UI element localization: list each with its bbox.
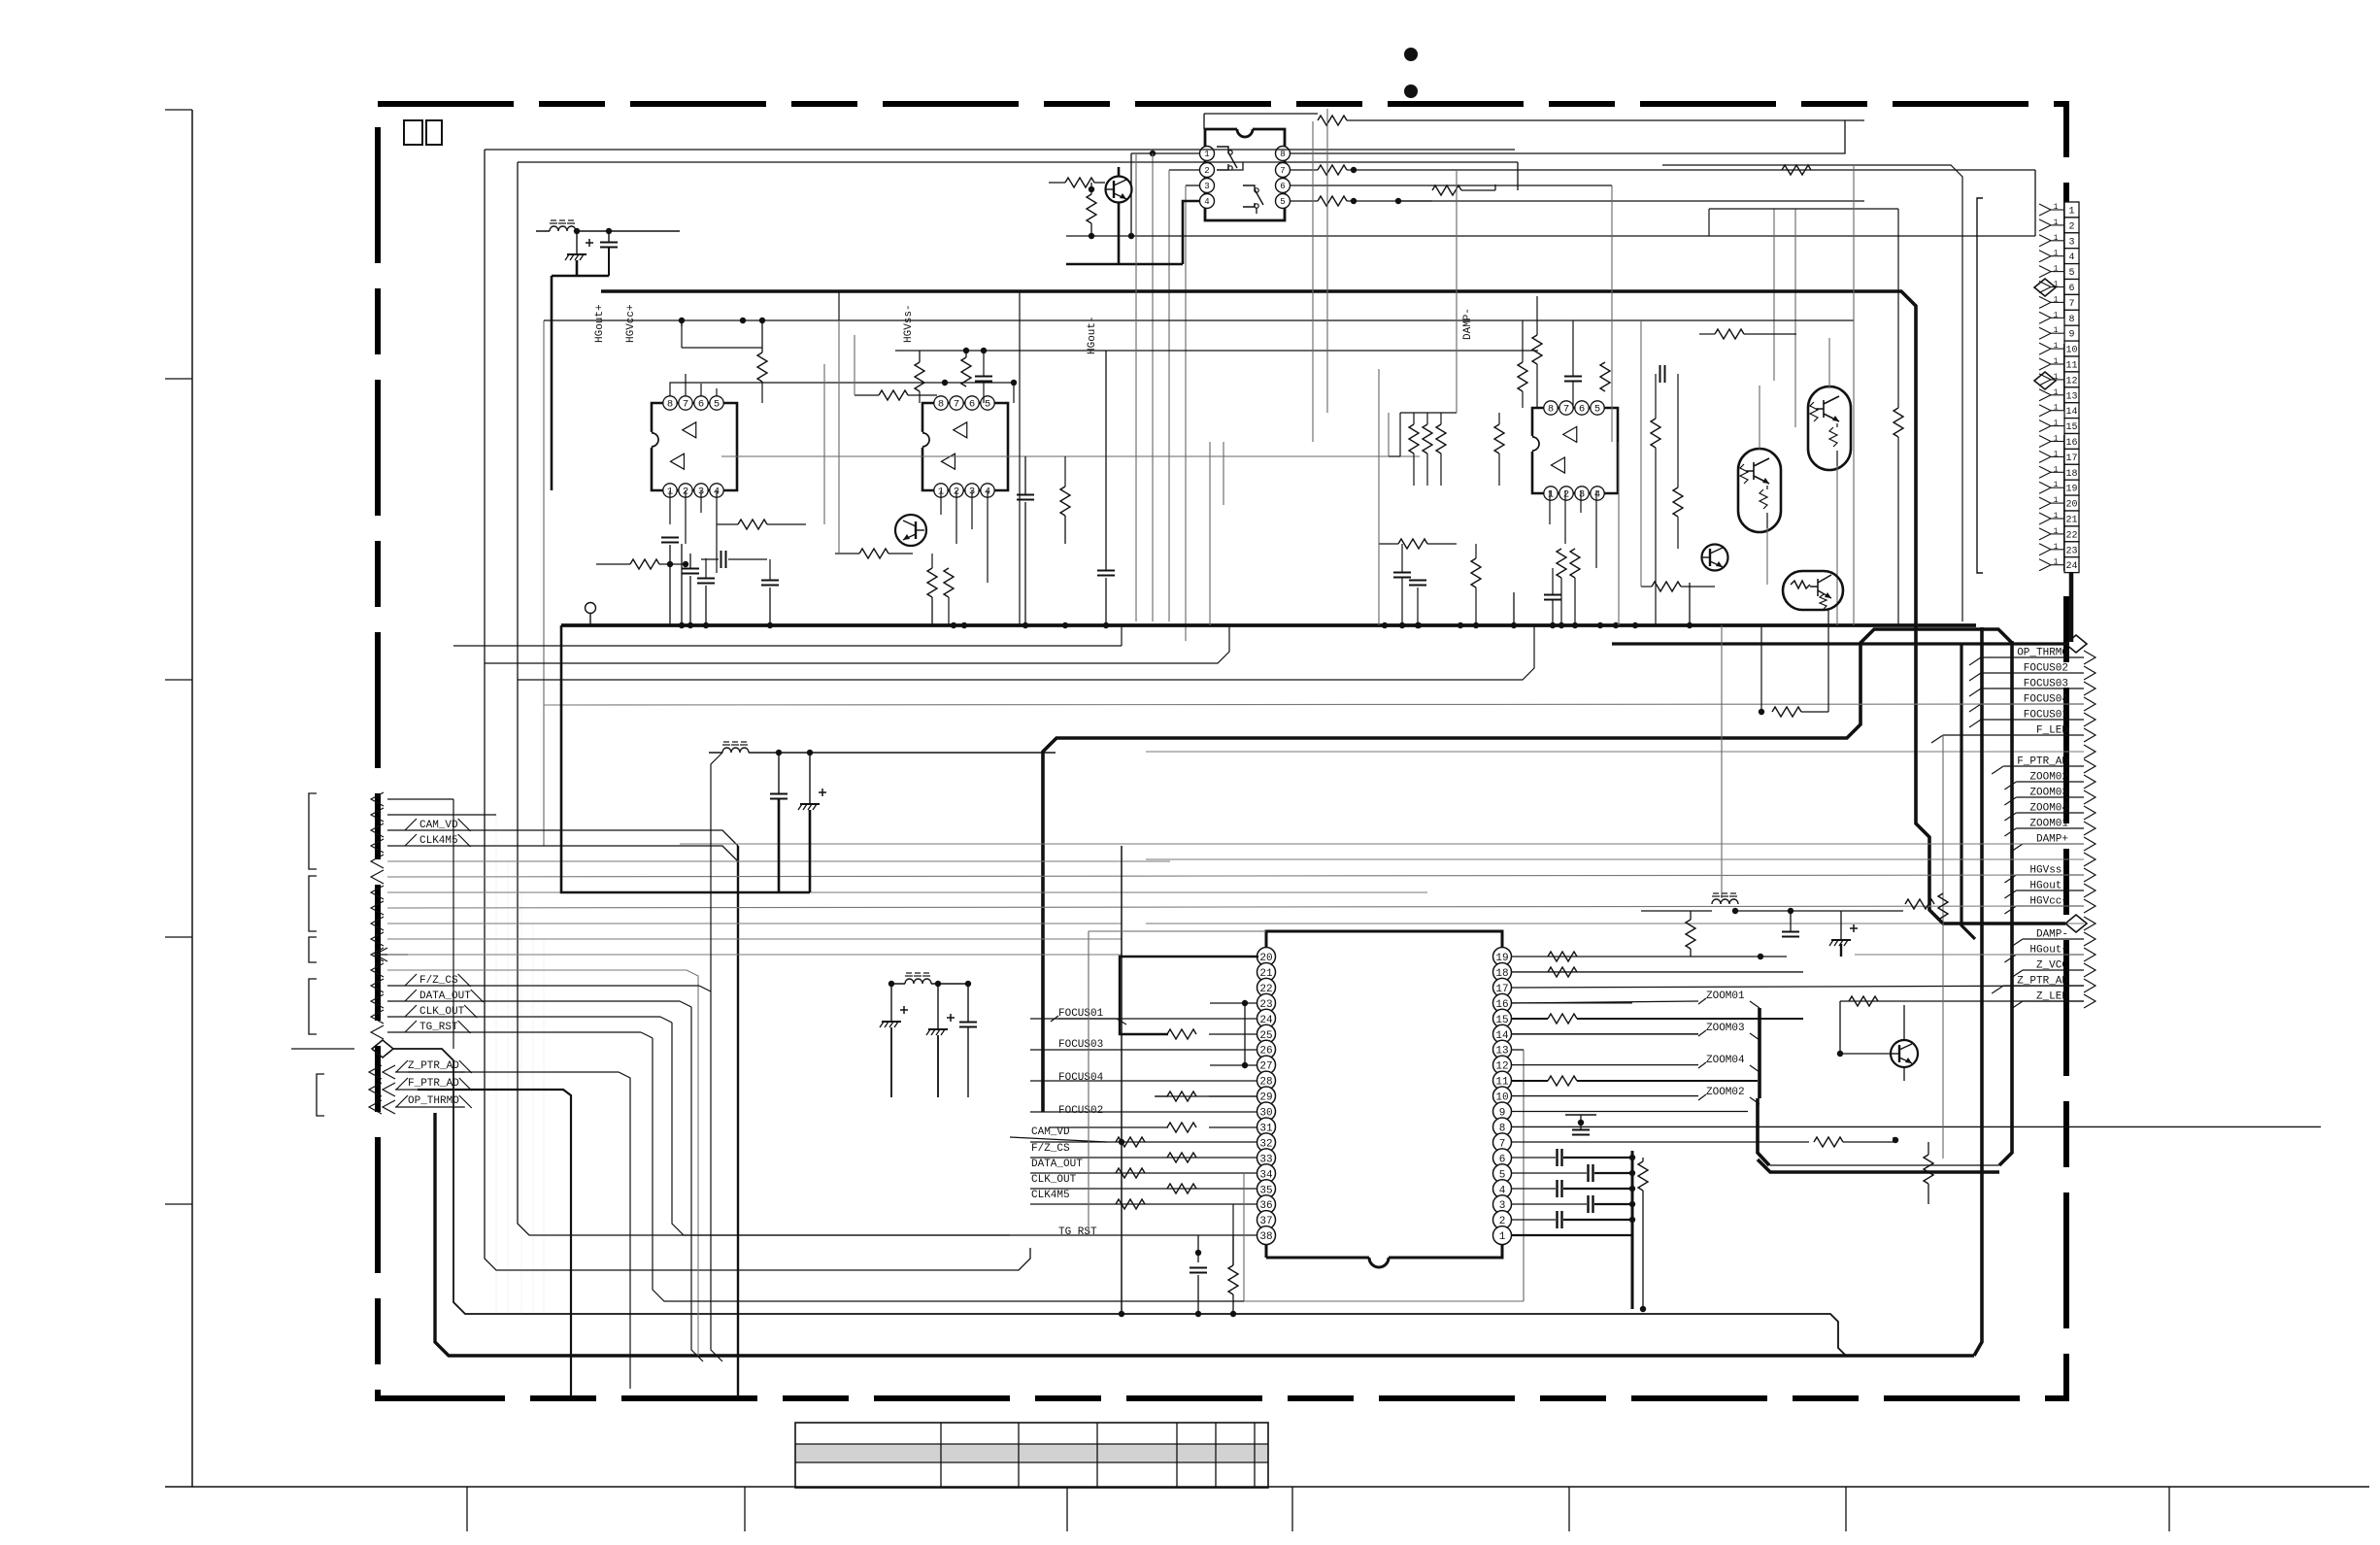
resistor R21 <box>1060 487 1070 516</box>
IC7 pin 14 wire <box>1512 1033 1698 1035</box>
nest wire 4 <box>653 1038 1244 1301</box>
resistor R31 <box>1600 362 1610 391</box>
resistor R29 <box>1518 362 1527 391</box>
IC7 pin 22 <box>1257 978 1276 996</box>
svg-text:1: 1 <box>2068 207 2074 218</box>
IC1 pin bottom wires <box>670 490 717 573</box>
svg-text:1: 1 <box>1499 1231 1506 1243</box>
transistor Q1 <box>1106 177 1132 203</box>
digital transistor capsule Q6 <box>1738 449 1781 532</box>
resistor R23 <box>927 568 937 597</box>
svg-text:DATA_OUT: DATA_OUT <box>1031 1159 1083 1170</box>
svg-text:TG_RST: TG_RST <box>419 1022 458 1033</box>
route from left diamond <box>393 1049 1846 1356</box>
wire pin6 right <box>1290 185 1612 186</box>
IC7 pin 32 <box>1257 1133 1276 1152</box>
svg-text:DAMP-: DAMP- <box>1462 308 1474 340</box>
svg-text:CAM_VD: CAM_VD <box>1031 1126 1070 1138</box>
left group brackets <box>309 793 317 869</box>
svg-text:Z_PTR_AD: Z_PTR_AD <box>408 1060 459 1072</box>
left chevron row nc <box>371 932 384 946</box>
resistor under IC7 <box>1228 1265 1238 1294</box>
svg-text:TG_RST: TG_RST <box>1058 1226 1097 1238</box>
capacitor C12 <box>1544 594 1561 596</box>
thick collector bus <box>1631 1151 1634 1309</box>
svg-text:1: 1 <box>2054 404 2059 413</box>
HGout+ long net right <box>1855 954 2084 956</box>
switch pin 7 <box>1276 163 1291 178</box>
svg-text:HGout-: HGout- <box>1087 316 1098 354</box>
cap right of IC3 resistors <box>1659 365 1661 383</box>
resistor R7 <box>1167 1153 1196 1162</box>
IC7 pin 8 wire <box>1512 1125 2321 1127</box>
svg-text:1: 1 <box>2054 481 2059 489</box>
IC7 pin 20 <box>1257 948 1276 966</box>
terminal circle on gnd bus <box>586 603 596 614</box>
svg-text:1: 1 <box>2054 558 2059 567</box>
CAM_VD CLK4M5 into trunk <box>387 830 738 861</box>
IC7 pin 25 <box>1257 1024 1276 1043</box>
svg-text:F/Z_CS: F/Z_CS <box>419 975 458 987</box>
IC7 pin 10 <box>1493 1087 1512 1105</box>
IC7 pin 24 <box>1257 1009 1276 1027</box>
IC7 pin 11 <box>1493 1071 1512 1090</box>
svg-text:CAM_VD: CAM_VD <box>419 820 458 831</box>
transistor right low <box>1702 545 1728 571</box>
resistor R14 <box>1548 952 1577 961</box>
resistor R34 <box>1471 558 1481 588</box>
capacitor C11 <box>1409 580 1426 582</box>
capacitor <box>1782 931 1799 933</box>
bus HGout+ top (thick) <box>601 291 2065 924</box>
resistor R12 <box>1167 1092 1196 1101</box>
svg-text:5: 5 <box>2068 268 2074 279</box>
capacitor C8 <box>1017 494 1034 496</box>
resistor R25 <box>1409 424 1419 453</box>
inductor L1 <box>550 226 576 231</box>
resistor right mid B <box>1673 487 1683 517</box>
diamond at connector pin 6 <box>2034 279 2056 296</box>
svg-text:1: 1 <box>2054 218 2059 227</box>
resistor R22 <box>859 549 888 558</box>
left chevron row CLK_OUT <box>371 1010 384 1024</box>
resistor R27 <box>1436 424 1446 453</box>
IC7 pin 18 <box>1493 962 1512 981</box>
HGVcc+ long net <box>387 906 2084 908</box>
resistor R8 <box>1116 1168 1145 1178</box>
svg-text:1: 1 <box>2054 388 2059 397</box>
IC7 pin 16 wire <box>1512 1002 1632 1004</box>
resistor R13 <box>1167 1123 1196 1132</box>
capacitor C7 <box>975 376 992 378</box>
svg-text:17: 17 <box>2065 453 2077 464</box>
svg-text:4: 4 <box>1204 197 1209 207</box>
svg-text:1: 1 <box>2054 342 2059 351</box>
svg-text:1: 1 <box>2054 326 2059 335</box>
svg-text:ZOOM03: ZOOM03 <box>1706 1023 1745 1034</box>
svg-text:1: 1 <box>2054 295 2059 304</box>
resistor R19 <box>1924 1155 1933 1184</box>
svg-text:7: 7 <box>1280 166 1285 176</box>
svg-text:7: 7 <box>954 399 959 411</box>
wire pin4 thick L <box>1066 201 1200 264</box>
IC7 pin 9 wire <box>1512 1111 1748 1113</box>
svg-text:7: 7 <box>683 399 688 411</box>
svg-text:5: 5 <box>714 399 720 411</box>
IC7 pin 13 <box>1493 1040 1512 1058</box>
svg-text:1: 1 <box>2054 265 2059 274</box>
svg-text:ZOOM01: ZOOM01 <box>1706 991 1745 1002</box>
svg-text:6: 6 <box>2068 284 2074 294</box>
svg-text:CLK4M5: CLK4M5 <box>1031 1190 1070 1201</box>
wire to capsule Q6 <box>1794 209 1796 427</box>
IC7 pin 14 <box>1493 1024 1512 1043</box>
IC7 pin 35 <box>1257 1180 1276 1198</box>
svg-text:6: 6 <box>969 399 975 411</box>
capacitor ladder <box>1556 1180 1558 1197</box>
svg-text:1: 1 <box>2054 527 2059 536</box>
left net label OP_THRMO <box>369 1100 395 1114</box>
diamond node right top <box>2065 635 2087 653</box>
nested loop wire A <box>485 150 1515 1270</box>
resistor R24 <box>944 568 954 597</box>
left chevron row nc <box>371 901 384 915</box>
long gray 726 <box>544 704 2084 705</box>
IC7 pin 2 <box>1493 1211 1512 1229</box>
resistor R9 <box>1167 1184 1196 1193</box>
digital transistor capsule Q8 <box>1783 571 1843 610</box>
capacitor below IC1 <box>661 537 679 539</box>
capacitor C mid <box>770 793 788 795</box>
svg-text:1: 1 <box>2054 357 2059 366</box>
resistor R2 <box>1318 165 1347 175</box>
svg-text:6: 6 <box>698 399 704 411</box>
IC7 pin 18 wire <box>1512 971 1803 973</box>
IC7 pin 19 <box>1493 948 1512 966</box>
pin20 thick route <box>1120 957 1258 1034</box>
resistor R18 <box>1814 1137 1843 1147</box>
svg-text:1: 1 <box>2054 250 2059 258</box>
svg-text:16: 16 <box>2065 438 2077 449</box>
IC7 pin 17 <box>1493 978 1512 996</box>
op-amp IC3 <box>1532 408 1618 493</box>
op-amp IC1 <box>652 403 737 490</box>
resistor R17 <box>1548 1076 1577 1086</box>
IC7 pin 7 <box>1493 1133 1512 1152</box>
capacitor ladder <box>1556 1211 1558 1228</box>
thick gnd link mid <box>561 625 779 892</box>
left chevron row DATA_OUT <box>371 994 384 1008</box>
bottom caps under IC7 <box>1195 1250 1201 1256</box>
resistor jog right <box>1772 707 1801 717</box>
left chevron row nc <box>371 855 384 868</box>
alignment dot upper <box>1404 48 1418 61</box>
title table <box>795 1444 1268 1462</box>
resistor R16 <box>1548 1014 1577 1024</box>
transistor Q2 <box>1891 1040 1918 1067</box>
svg-text:18: 18 <box>2065 469 2077 480</box>
wire pin8 <box>1290 120 1864 153</box>
nest wire TG_RST <box>672 1023 1006 1235</box>
resistor below Q1 <box>1087 194 1096 223</box>
IC7 pin 36 <box>1257 1195 1276 1214</box>
dashed sheet border <box>378 104 2066 1398</box>
transistor below IC2 <box>895 515 926 546</box>
diamond node right mid <box>2065 915 2087 932</box>
right spare chevron <box>2084 853 2095 866</box>
gray loop under IC7 <box>1244 1300 1524 1302</box>
switch IC S1 body <box>1205 129 1285 220</box>
left net label F_PTR_AD <box>369 1083 395 1096</box>
HGout+ long net left <box>387 954 1122 956</box>
resistor low left IC1 <box>630 559 659 569</box>
electrolytic capacitor C1 <box>567 253 587 255</box>
electrolytic cap mid <box>800 803 820 805</box>
svg-text:23: 23 <box>2065 546 2077 556</box>
nest wire 1 <box>711 753 722 1361</box>
wire h330 <box>1066 319 1854 321</box>
pin17 long wire to Z_PTR_AD <box>1512 986 2084 988</box>
left chevron row nc <box>371 948 384 961</box>
resistor far right <box>1894 408 1903 437</box>
Z_LED wire <box>1840 1001 2084 1054</box>
op-amp IC2 <box>922 403 1008 490</box>
resistor R5 <box>1782 165 1811 175</box>
left trunk thick <box>737 846 739 1396</box>
svg-text:38: 38 <box>1259 1231 1272 1243</box>
svg-text:7: 7 <box>2068 299 2074 310</box>
IC2 pin bottom wires <box>941 490 988 583</box>
IC7 pin 5 <box>1493 1164 1512 1183</box>
svg-text:1: 1 <box>2054 311 2059 319</box>
connector CN901 24-pin <box>2064 202 2079 218</box>
resistor above IC1 <box>757 353 767 382</box>
resistor R15 <box>1548 967 1577 977</box>
electrolytic cap A <box>882 1021 901 1023</box>
resistor Z_LED <box>1849 996 1878 1006</box>
capacitor C4 <box>761 580 779 582</box>
resistor R20 <box>961 357 971 386</box>
svg-text:21: 21 <box>2065 516 2077 526</box>
sheet id squares <box>404 120 422 145</box>
wire pin5 right <box>1347 200 1864 202</box>
switch pin 2 <box>1200 163 1215 178</box>
svg-text:1: 1 <box>2054 420 2059 428</box>
thick route R1 FOCUS02 feed <box>1043 629 2012 1112</box>
capacitor C9 <box>1564 376 1582 378</box>
pin1 wire <box>1512 1234 1632 1236</box>
capacitor <box>959 1022 977 1024</box>
switch pin 6 <box>1276 179 1291 193</box>
diamond at connector pin 12 <box>2034 372 2056 389</box>
svg-text:F_PTR_AD: F_PTR_AD <box>408 1078 459 1090</box>
capacitor ladder <box>1556 1149 1558 1166</box>
svg-text:2: 2 <box>1204 166 1209 176</box>
svg-text:CLK_OUT: CLK_OUT <box>1031 1174 1077 1186</box>
svg-text:ZOOM02: ZOOM02 <box>1706 1087 1745 1098</box>
capacitor C2 <box>1190 1267 1207 1269</box>
mid band jog lines <box>453 625 1122 646</box>
svg-text:1: 1 <box>2054 465 2059 474</box>
resistor right of IC1 pins <box>738 520 767 529</box>
svg-text:1: 1 <box>2054 435 2059 444</box>
switch pin 1 <box>1200 147 1215 161</box>
left chevron row TG_RST <box>371 1025 384 1039</box>
left net label Z_PTR_AD <box>369 1065 395 1079</box>
switch pin 4 <box>1200 194 1215 209</box>
IC7 pin 15 <box>1493 1009 1512 1027</box>
svg-text:3: 3 <box>1579 489 1585 501</box>
wire h361 <box>895 350 1538 352</box>
IC7 pin 16 <box>1493 993 1512 1012</box>
switch element A <box>1217 147 1237 170</box>
svg-text:20: 20 <box>2065 500 2077 511</box>
capacitor C top-left <box>600 242 618 244</box>
svg-text:8: 8 <box>667 399 673 411</box>
gray risers from left rows <box>495 815 497 1317</box>
svg-text:5: 5 <box>1280 197 1285 207</box>
top bus y=243 <box>1066 235 2035 237</box>
IC7 pin 27 <box>1257 1056 1276 1074</box>
svg-text:OP_THRMO: OP_THRMO <box>408 1095 459 1107</box>
left chevron row nc <box>371 917 384 930</box>
IC7 pin 28 <box>1257 1071 1276 1090</box>
vert to connector p1 <box>2034 170 2036 236</box>
svg-text:5: 5 <box>1594 404 1600 416</box>
svg-text:HGVcc+: HGVcc+ <box>625 304 637 343</box>
F_PTR_AD thick vert <box>418 1090 571 1396</box>
svg-text:14: 14 <box>2065 407 2077 418</box>
svg-text:2: 2 <box>1563 489 1569 501</box>
resistor R32 <box>1557 549 1566 578</box>
wire h470 <box>721 455 1420 457</box>
thick stub below connector <box>2069 573 2074 642</box>
DAMP+ long net <box>680 843 2084 845</box>
thick gnd jog <box>552 260 609 490</box>
thick vertical trunk x2072 <box>1999 641 2012 1165</box>
pin13 stub <box>1512 1049 1524 1051</box>
wire pin1 <box>1131 152 1200 154</box>
nest wire 2 <box>691 1007 703 1361</box>
svg-text:24: 24 <box>2065 561 2077 572</box>
IC7 pin 19 wire <box>1512 956 1787 957</box>
ferrite bead FB2 <box>722 748 749 753</box>
IC7 pin 6 <box>1493 1149 1512 1167</box>
resistor R11 <box>1167 1029 1196 1039</box>
left chevron row CAM_VD <box>371 823 384 837</box>
IC7 pin 26 <box>1257 1040 1276 1058</box>
connector CN bracket <box>1977 198 1983 573</box>
svg-text:1: 1 <box>2054 512 2059 521</box>
svg-text:HGVss-: HGVss- <box>903 304 915 343</box>
wire vert <box>1130 153 1132 236</box>
switch pin 5 <box>1276 194 1291 209</box>
capacitor C5 <box>682 568 699 570</box>
svg-text:13: 13 <box>2065 391 2077 402</box>
svg-text:CLK4M5: CLK4M5 <box>419 835 458 847</box>
svg-text:8: 8 <box>1280 150 1285 159</box>
svg-text:9: 9 <box>2068 330 2074 341</box>
svg-text:F/Z_CS: F/Z_CS <box>1031 1143 1070 1155</box>
IC7 pin 23 <box>1257 993 1276 1012</box>
resistor upper right <box>1715 329 1744 339</box>
F_LED net vertical <box>1942 735 1944 1159</box>
resistor left of IC2 <box>879 390 908 400</box>
big cap mid <box>1097 570 1115 572</box>
stubs to gnd bus right part <box>1416 622 1422 628</box>
resistor R1 <box>1318 116 1347 125</box>
electrolytic cap B <box>928 1028 948 1030</box>
HGVss- long net <box>387 875 2084 877</box>
svg-text:FOCUS02: FOCUS02 <box>1058 1105 1103 1117</box>
resistor <box>1686 920 1695 949</box>
IC7 pin 4 <box>1493 1180 1512 1198</box>
left chevron row nc <box>371 792 384 806</box>
IC3 pin bottom wires <box>1550 490 1596 568</box>
svg-text:1: 1 <box>2054 450 2059 458</box>
resistor <box>1652 582 1681 591</box>
left chevron row nc <box>371 870 384 884</box>
resistor <box>1638 1161 1648 1191</box>
svg-text:1: 1 <box>2054 234 2059 243</box>
inductor L3 <box>1712 899 1738 904</box>
resistor F_LED <box>1938 893 1948 923</box>
Z_PTR_AD route <box>408 1072 630 1389</box>
left diamond node <box>372 1040 393 1058</box>
misc verticals upper <box>823 364 825 524</box>
resistor above IC2 <box>915 362 924 391</box>
capacitor C3 <box>1572 1129 1590 1131</box>
IC7 pin 29 <box>1257 1087 1276 1105</box>
resistor R28 <box>1494 424 1504 453</box>
IC7 pin 37 <box>1257 1211 1276 1229</box>
svg-text:1: 1 <box>2054 203 2059 212</box>
pin11 wire <box>1577 1080 1758 1082</box>
frame tick marks <box>165 109 192 111</box>
svg-text:6: 6 <box>1579 404 1585 416</box>
long verticals left <box>543 320 545 846</box>
resistor low mid <box>1398 539 1427 549</box>
IC7 pin 38 <box>1257 1226 1276 1245</box>
thick net to right diamond <box>1612 642 2065 645</box>
svg-text:7: 7 <box>1563 404 1569 416</box>
svg-text:ZOOM04: ZOOM04 <box>1706 1055 1745 1066</box>
svg-text:11: 11 <box>2065 361 2077 372</box>
right spare chevron <box>2084 917 2095 930</box>
svg-text:4: 4 <box>2068 252 2074 263</box>
switch pin 8 <box>1276 147 1291 161</box>
ZOOM02 thick route bottom <box>1758 1098 1999 1172</box>
svg-text:HGout+: HGout+ <box>594 304 606 343</box>
thick vertical trunk x2041 <box>1974 627 1982 1356</box>
resistor R30 <box>1532 335 1542 364</box>
resistor HGVcc row <box>1905 899 1934 909</box>
IC7 timing generator body <box>1266 931 1502 1258</box>
svg-text:15: 15 <box>2065 422 2077 433</box>
capacitor C6 <box>697 578 715 580</box>
IC7 pin 21 <box>1257 962 1276 981</box>
left chevron row CLK4M5 <box>371 839 384 853</box>
IC7 pin 31 <box>1257 1118 1276 1136</box>
svg-text:3: 3 <box>1204 182 1209 191</box>
resistor R6 <box>1116 1137 1145 1147</box>
left chevron row nc <box>371 808 384 822</box>
verticals near right coil <box>1721 625 1723 898</box>
wire pin7 long right <box>1347 169 2035 171</box>
svg-text:1: 1 <box>1548 489 1554 501</box>
svg-text:12: 12 <box>2065 376 2077 386</box>
wire to Q1 base <box>1049 182 1065 184</box>
